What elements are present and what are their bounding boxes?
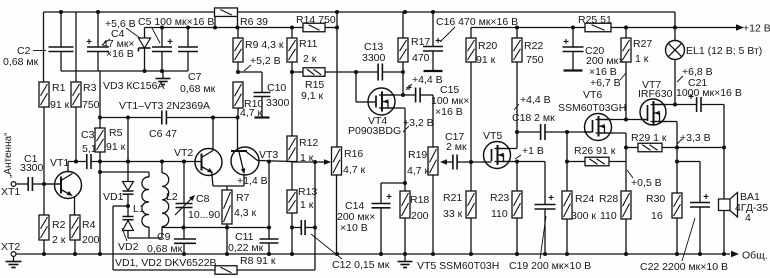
- svg-text:R2: R2: [52, 219, 66, 231]
- svg-text:R29 1 к: R29 1 к: [631, 132, 667, 144]
- svg-text:IRF630: IRF630: [638, 88, 673, 100]
- capacitor C1 (3300) series antenna: [16, 183, 28, 185]
- node gate tap dot: [354, 70, 358, 74]
- svg-text:1 к: 1 к: [635, 53, 649, 65]
- inductor L1: [142, 177, 149, 227]
- wire supply rail right of R25: [611, 27, 737, 29]
- svg-text:10...90: 10...90: [188, 209, 220, 221]
- wire L1 bottom: [148, 227, 150, 238]
- wire tank bottom y227.5 to C11 column: [162, 227, 269, 229]
- svg-text:+6,7 В: +6,7 В: [590, 77, 621, 89]
- wire C4 label pointer: [102, 39, 110, 45]
- svg-text:+: +: [563, 37, 569, 48]
- wire +3.3 tick: [677, 139, 682, 144]
- wire C6 coupling line y117.5: [100, 117, 162, 119]
- wire VT4 source down to R18/C14 node: [379, 107, 405, 109]
- resistor R28 (110) VT6 source: [621, 191, 631, 219]
- svg-text:16: 16: [651, 210, 663, 222]
- svg-text:3300: 3300: [362, 52, 386, 64]
- capacitor C16 (470u x16V) supply filter: [432, 12, 434, 47]
- wire VT3 emitter: [239, 152, 244, 172]
- node VT5 gate bias node: [469, 160, 473, 164]
- wire right supply rail y27.5 from R20 corner to +12 arrow: [471, 27, 585, 29]
- capacitor C15 (100u) output coupling: [403, 94, 415, 96]
- capacitor C18 (2u) coupling to VT6: [517, 131, 540, 133]
- svg-text:750: 750: [526, 54, 544, 66]
- wire ground bus y71 top-left: [61, 70, 188, 72]
- svg-text:EL1 (12 В; 5 Вт): EL1 (12 В; 5 Вт): [686, 45, 762, 57]
- resistor R30 (16): [672, 193, 682, 218]
- svg-text:R26 91 к: R26 91 к: [574, 145, 616, 157]
- svg-text:1 к: 1 к: [300, 199, 314, 211]
- svg-text:C10: C10: [267, 82, 286, 94]
- transistor VT6 SSM60T03GH mosfet: [585, 114, 612, 141]
- svg-text:110: 110: [600, 210, 617, 222]
- wire C22 label pointer: [682, 218, 695, 261]
- svg-text:L2: L2: [166, 191, 178, 203]
- svg-text:R8 91 к: R8 91 к: [240, 255, 276, 267]
- svg-text:0,68 мк: 0,68 мк: [3, 56, 39, 68]
- svg-text:C5 100 мк×16 В: C5 100 мк×16 В: [138, 16, 214, 28]
- wire VT7 source down: [651, 121, 678, 123]
- wire VT3 collector diag and lead: [246, 152, 258, 161]
- wire +3.2 label tick: [403, 126, 409, 132]
- capacitor C9 (0.68u) tank to common: [174, 238, 196, 240]
- svg-text:VD3 КС156А: VD3 КС156А: [103, 80, 164, 92]
- wire y72 line from x337 to C13: [337, 71, 378, 73]
- node +12V entry arrow: [736, 24, 744, 30]
- wire C2 label pointer: [33, 50, 46, 52]
- wire VT3 base from R10 node: [237, 118, 239, 152]
- svg-text:R14 750: R14 750: [296, 14, 336, 26]
- svg-text:300 к: 300 к: [571, 210, 596, 222]
- svg-text:XT1: XT1: [1, 186, 20, 198]
- wire R8 loop bottom right and riser: [237, 269, 315, 271]
- terminal XT1 antenna input: [11, 182, 16, 187]
- svg-text:4,7 к: 4,7 к: [407, 165, 430, 177]
- svg-text:200: 200: [82, 234, 100, 246]
- svg-text:+1,4 В: +1,4 В: [237, 175, 268, 187]
- resistor R6 (39) in top rail: [215, 8, 238, 17]
- svg-text:C9: C9: [157, 231, 171, 243]
- svg-text:SSM60T03GH: SSM60T03GH: [558, 102, 626, 114]
- node junction dots on rails: [59, 10, 63, 14]
- capacitor C21 (1000u x16V): [675, 104, 696, 106]
- svg-text:R5: R5: [109, 127, 123, 139]
- wire VT1 collector to y161.5: [67, 162, 69, 173]
- svg-text:×10 В: ×10 В: [340, 222, 368, 234]
- svg-text:VT2: VT2: [174, 147, 193, 159]
- node dots on C6 line: [126, 116, 130, 120]
- resistor R10 (4.7k): [233, 82, 243, 108]
- wire +4.4 tick at R22: [514, 104, 519, 110]
- node varicap midpoint dot: [126, 204, 130, 208]
- svg-text:R20: R20: [478, 40, 497, 52]
- node VT6 gate bias node: [565, 130, 569, 134]
- svg-text:+: +: [548, 193, 554, 204]
- resistor R20 (91k) gate divider upper: [470, 28, 472, 39]
- resistor R27 (1k): [625, 28, 627, 39]
- capacitor C14 (200u x10V) source bypass: [381, 182, 405, 184]
- wire wiper feed to R16: [292, 161, 318, 163]
- svg-text:+12 В: +12 В: [743, 23, 770, 35]
- resistor R19 (4.7k) pot: [428, 147, 438, 175]
- svg-text:4,7 к: 4,7 к: [240, 107, 263, 119]
- resistor R1 (91k) base bias: [43, 12, 45, 82]
- svg-text:R7: R7: [236, 192, 250, 204]
- svg-text:VT1–VT3 2N2369A: VT1–VT3 2N2369A: [119, 100, 210, 112]
- svg-text:+3,3 В: +3,3 В: [680, 132, 711, 144]
- svg-text:+: +: [703, 192, 709, 203]
- wire +0.5 tick: [627, 170, 633, 178]
- wire tank bottom y238 segment: [128, 237, 162, 239]
- svg-text:R24: R24: [575, 193, 594, 205]
- svg-text:+4,4 В: +4,4 В: [520, 94, 551, 106]
- svg-text:„Антенна“: „Антенна“: [3, 133, 14, 179]
- wire R15 left: [292, 71, 303, 73]
- svg-text:VT1: VT1: [50, 157, 69, 169]
- capacitor C3 (5.1): [86, 154, 88, 169]
- svg-text:C3: C3: [81, 129, 95, 141]
- node base VT1 junction dot: [42, 182, 46, 186]
- svg-text:C12 0,15 мк: C12 0,15 мк: [332, 259, 390, 271]
- svg-text:R13: R13: [298, 186, 317, 198]
- capacitor C11 (0.22u) from VT3 collector node: [268, 162, 270, 240]
- svg-text:R25 51: R25 51: [578, 14, 612, 26]
- svg-text:0,22 мк: 0,22 мк: [228, 242, 264, 254]
- wire R6 left stub down to filtered rail: [214, 17, 216, 28]
- node R9/R10 junction +5.2V: [236, 70, 240, 74]
- svg-text:+: +: [406, 83, 412, 94]
- varicap VD2 DKV6522B: [127, 206, 129, 217]
- capacitor C4 (47u) +5.6V filter electrolytic: [97, 12, 99, 47]
- svg-text:200: 200: [411, 210, 429, 222]
- svg-text:Общ.: Общ.: [742, 250, 768, 262]
- node dots on tank top line: [74, 160, 78, 164]
- svg-text:3300: 3300: [266, 97, 290, 109]
- resistor R29 (1k): [626, 147, 638, 149]
- wire VT4 gate tap: [355, 72, 357, 102]
- svg-text:+4,4 В: +4,4 В: [412, 74, 443, 86]
- wire R5/C6 column from ground bus: [99, 71, 101, 128]
- svg-text:R19: R19: [408, 149, 427, 161]
- resistor R22 (750) drain load: [516, 28, 518, 39]
- svg-text:91 к: 91 к: [476, 54, 496, 66]
- svg-text:2 к: 2 к: [303, 53, 317, 65]
- svg-text:R11: R11: [299, 38, 318, 50]
- wire +6.7 tick: [620, 73, 626, 80]
- svg-text:5,1: 5,1: [82, 143, 97, 155]
- wire VT2 emitter down: [212, 172, 213, 186]
- svg-text:R22: R22: [524, 40, 543, 52]
- wire +6.8 tick: [677, 76, 683, 82]
- resistor R21 (33k) divider lower: [466, 191, 476, 218]
- capacitor C10 (3300) to ground: [238, 71, 262, 73]
- resistor R23 (110) source: [516, 162, 518, 192]
- wire gate line to VT6: [567, 131, 591, 133]
- capacitor C22 (2200u x10V) output: [677, 161, 700, 163]
- wire output line y147.5 to speaker column: [677, 147, 724, 149]
- wire C16 label pointer: [440, 27, 455, 42]
- inductor L2: [162, 173, 169, 227]
- wire bottom common rail: [16, 253, 731, 255]
- wire +5.6V filtered rail y27.5 left segment: [145, 27, 304, 29]
- resistor R13 (1k): [291, 162, 293, 191]
- wire VT4 drain node: [379, 94, 403, 96]
- wire L1 top feed y172: [100, 171, 149, 173]
- svg-text:2 мк: 2 мк: [446, 141, 467, 153]
- resistor R8 (91k): [215, 266, 237, 275]
- wire top +12V rail y12 (right of R6): [238, 11, 676, 13]
- resistor R3 (750) VT1 collector load: [75, 12, 77, 82]
- svg-text:2 к: 2 к: [52, 234, 66, 246]
- resistor R2 (2k) base to common: [43, 184, 45, 215]
- resistor R12 (1k): [291, 72, 293, 136]
- svg-text:R6 39: R6 39: [240, 16, 268, 28]
- wire emitters common y186: [213, 185, 244, 187]
- svg-text:4,7 к: 4,7 к: [343, 164, 366, 176]
- transistor VT5 SSM60T03H mosfet: [484, 142, 511, 169]
- wire R19 wiper arrow: [443, 161, 453, 163]
- svg-text:4ГД-35: 4ГД-35: [735, 202, 768, 214]
- transistor VT4 P0903BDG mosfet: [368, 88, 395, 115]
- wire VT7 source column to R30: [676, 148, 678, 194]
- capacitor C6 (47) coupling: [161, 111, 163, 125]
- ground symbol below rail at R18: [404, 254, 406, 261]
- svg-text:+: +: [386, 192, 392, 203]
- svg-text:R4: R4: [82, 219, 96, 231]
- wire C5 label pointer: [152, 28, 160, 43]
- svg-text:VT5 SSM60T03H: VT5 SSM60T03H: [417, 260, 499, 272]
- resistor R15 (9.1k): [303, 68, 325, 77]
- wire L2 bottom corner: [161, 227, 163, 238]
- wire R8 varicap bias loop left leg: [113, 205, 128, 207]
- wire VT6 drain to R27 bottom and VT7 gate: [596, 119, 627, 121]
- speaker BA1 4GD-35: [723, 148, 725, 200]
- svg-text:110: 110: [491, 208, 508, 220]
- svg-text:0,68 мк: 0,68 мк: [180, 83, 216, 95]
- capacitor C13 (3300): [377, 64, 379, 81]
- svg-text:×16 В: ×16 В: [435, 106, 463, 118]
- wire VT1 base lead: [44, 183, 61, 185]
- node dot collector line: [267, 160, 271, 164]
- svg-text:R30: R30: [646, 193, 665, 205]
- diode VD3 zener KC156A: [144, 28, 146, 39]
- wire C12 label pointer: [311, 234, 342, 259]
- terminal XT2 ground: [11, 252, 16, 257]
- wire +1V tick: [515, 155, 521, 159]
- capacitor C7 (0.68u): [187, 28, 189, 48]
- svg-text:C22 2200 мк×10 В: C22 2200 мк×10 В: [640, 261, 728, 273]
- svg-text:0,68 мк: 0,68 мк: [147, 243, 183, 255]
- svg-text:R21: R21: [443, 192, 462, 204]
- svg-text:R3: R3: [83, 82, 97, 94]
- svg-text:R1: R1: [52, 82, 66, 94]
- node junction dots on bottom rail: [42, 252, 46, 256]
- wire VT7 drain node: [651, 104, 676, 106]
- resistor R24 (300k) gate leak: [566, 132, 568, 191]
- lamp EL1 (12V 5W): [674, 28, 676, 41]
- svg-text:+: +: [167, 37, 173, 48]
- capacitor C17 (2u) coupling: [452, 155, 454, 170]
- wire R5 column to common rail with tank tap: [99, 162, 101, 255]
- wire R8 loop bottom left: [113, 269, 215, 271]
- wire +5.6V label pointer: [126, 28, 140, 38]
- node R11 bottom / R15 left: [290, 70, 294, 74]
- wire R13 bottom to rail: [291, 228, 293, 255]
- svg-text:C19 200 мк×10 В: C19 200 мк×10 В: [509, 260, 591, 272]
- wire L2 top stub: [161, 162, 163, 174]
- svg-text:3300: 3300: [20, 162, 44, 174]
- svg-text:750: 750: [82, 99, 100, 111]
- svg-text:VT6: VT6: [583, 89, 602, 101]
- svg-text:XT2: XT2: [1, 241, 20, 253]
- wire VT5 source node: [495, 161, 518, 163]
- resistor R26 (91k) feedback: [567, 161, 585, 163]
- wire VT7 gate lead: [626, 119, 647, 121]
- svg-text:+6,8 В: +6,8 В: [682, 66, 713, 78]
- transistor VT1 2N2369A: [55, 172, 82, 199]
- svg-text:×16 В: ×16 В: [106, 48, 134, 60]
- wire top +12V rail y12 (left of R6): [44, 11, 215, 13]
- transistor VT7 IRF630 mosfet: [640, 99, 666, 125]
- capacitor C8 trimmer (10..90): [183, 162, 185, 204]
- wire VD2 label pointer: [122, 228, 127, 241]
- svg-text:R23: R23: [490, 192, 509, 204]
- svg-text:+1 В: +1 В: [522, 145, 544, 157]
- svg-text:L1: L1: [133, 203, 145, 215]
- svg-text:VT3: VT3: [259, 149, 278, 161]
- svg-text:+0,5 В: +0,5 В: [631, 177, 662, 189]
- capacitor C12 (0.15u): [292, 227, 301, 229]
- wire R6 right stub down to rail: [237, 17, 239, 28]
- resistor R5 (91k): [95, 128, 105, 152]
- svg-text:4,3 к: 4,3 к: [234, 207, 257, 219]
- svg-text:91 к: 91 к: [50, 99, 70, 111]
- wire C19 label pointer: [540, 216, 546, 259]
- node C18 tap: [515, 130, 519, 134]
- svg-text:1000 мк×16 В: 1000 мк×16 В: [676, 87, 742, 99]
- svg-text:VD1, VD2 DKV6522В: VD1, VD2 DKV6522В: [115, 257, 217, 269]
- wire VT6 source column: [596, 132, 627, 134]
- svg-text:P0903BDG: P0903BDG: [348, 125, 401, 137]
- capacitor C2 (0.68u) rail bypass: [60, 12, 62, 47]
- svg-text:C18 2 мк: C18 2 мк: [512, 112, 555, 124]
- svg-text:+: +: [86, 37, 92, 48]
- wire x337 column top rail to R16: [336, 12, 338, 147]
- svg-text:R9 4,3 к: R9 4,3 к: [245, 39, 284, 51]
- transistor VT3: [231, 147, 259, 175]
- varicap VD1 DKV6522B: [127, 118, 129, 182]
- svg-text:R12: R12: [299, 137, 318, 149]
- svg-text:VD2: VD2: [118, 241, 139, 253]
- transistor VT2: [195, 149, 222, 176]
- svg-text:C7: C7: [188, 71, 202, 83]
- svg-text:470: 470: [412, 52, 430, 64]
- ground symbol at XT2: [13, 257, 15, 262]
- wire VT1 emitter down to R4: [74, 197, 76, 216]
- wire VT5 drain to R22: [495, 148, 518, 150]
- svg-text:VD1: VD1: [103, 191, 124, 203]
- svg-text:R16: R16: [344, 148, 363, 160]
- resistor R25 (51) in right supply rail: [585, 23, 611, 32]
- resistor R16 (4.7k) pot: [332, 147, 342, 175]
- wire VT2 collector up to C6 line: [212, 118, 214, 151]
- resistor R17 (470) drain load: [402, 12, 404, 38]
- wire mid rail right of R14: [325, 27, 337, 29]
- svg-text:R28: R28: [599, 193, 618, 205]
- svg-text:R27: R27: [633, 38, 652, 50]
- svg-text:C8: C8: [196, 193, 210, 205]
- resistor R4 (200) VT1 emitter: [70, 215, 80, 240]
- svg-text:C16 470 мк×16 В: C16 470 мк×16 В: [436, 16, 518, 28]
- ground symbol on bus: [162, 71, 164, 78]
- resistor R7 (4.3k) emitter: [226, 186, 228, 190]
- svg-text:C6 47: C6 47: [149, 128, 177, 140]
- resistor R18 (200) source: [404, 183, 406, 191]
- svg-text:+5,2 В: +5,2 В: [250, 55, 281, 67]
- svg-text:VT5: VT5: [483, 130, 502, 142]
- svg-text:4: 4: [745, 212, 751, 224]
- svg-text:9,1 к: 9,1 к: [301, 90, 324, 102]
- svg-text:91 к: 91 к: [106, 141, 126, 153]
- capacitor C20 (200u x16V) filter: [572, 28, 574, 48]
- wire VT2 base lead: [195, 161, 202, 163]
- resistor R11 (2k): [291, 28, 293, 39]
- capacitor C19 (200u x10V) source bypass: [517, 161, 545, 163]
- capacitor C5 (100u x16V) electrolytic: [161, 28, 163, 48]
- wire C15 to R19 top: [432, 95, 434, 147]
- node common rail arrow to Общ.: [731, 251, 739, 257]
- resistor R9 (4.3k): [237, 28, 239, 39]
- wire VT1 collector node line y161.5 with C3 to tank: [68, 161, 87, 163]
- resistor R14 (750) in series on mid rail: [303, 23, 325, 32]
- wire +12V drop at right to lamp rail: [674, 12, 676, 28]
- svg-text:R18: R18: [410, 194, 429, 206]
- svg-text:33 к: 33 к: [443, 208, 463, 220]
- wire +4.4 label tick: [406, 84, 412, 90]
